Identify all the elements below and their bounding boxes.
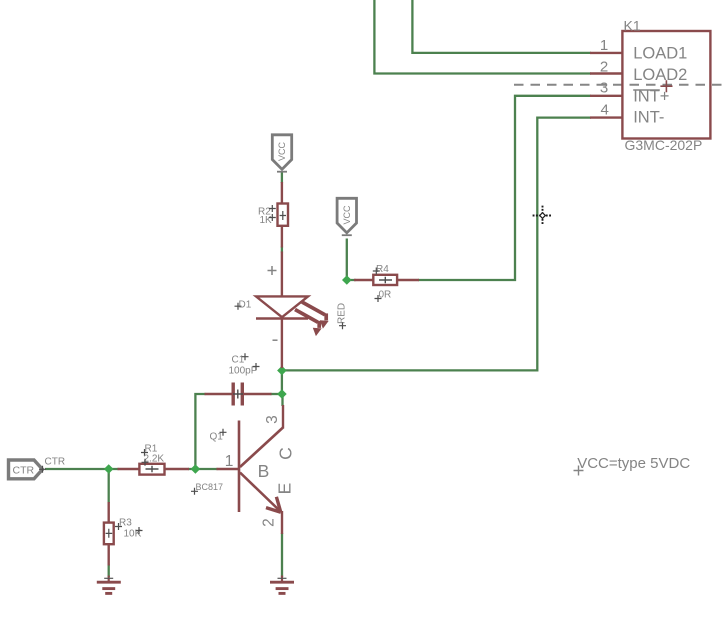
wire R3 to GND1 bbox=[108, 565, 110, 578]
wire VCC2 to R4 left bbox=[347, 239, 356, 281]
svg-text:1K: 1K bbox=[260, 215, 273, 226]
supply symbol VCC1 bbox=[272, 135, 291, 172]
svg-text:C: C bbox=[275, 447, 295, 460]
svg-text:CTR: CTR bbox=[45, 456, 66, 467]
junction node CTR/R3 bbox=[104, 464, 114, 474]
transistor Q1 value BC817 bbox=[191, 482, 223, 495]
note text VCC=type 5VDC bbox=[574, 455, 691, 476]
relay K1 refdes label bbox=[624, 18, 641, 34]
resistor R2 refdes label bbox=[258, 205, 276, 218]
relay K1 box bbox=[622, 31, 710, 139]
wire VCC1 to R2 bbox=[281, 172, 283, 183]
connector CTR symbol bbox=[9, 460, 43, 479]
resistor R1 body bbox=[139, 464, 164, 475]
resistor R3 refdes label bbox=[115, 518, 132, 531]
resistor R3 value 10K bbox=[124, 527, 143, 540]
capacitor C1 refdes label bbox=[232, 353, 249, 365]
pin name LOAD2 bbox=[633, 66, 687, 84]
pin number 2 bbox=[600, 58, 608, 75]
resistor R3 leads bbox=[107, 502, 109, 566]
diode D1 LED triangle bbox=[256, 296, 308, 317]
diode D1 refdes label bbox=[235, 300, 252, 311]
wire LED cathode to node bbox=[281, 367, 283, 395]
capacitor C1 value 100pF bbox=[229, 363, 260, 377]
connector CTR net label bbox=[39, 456, 65, 473]
svg-text:E: E bbox=[274, 483, 294, 495]
transistor Q1 pin number 3 (rotated) bbox=[264, 415, 281, 424]
capacitor C1 origin cross bbox=[233, 390, 243, 399]
transistor Q1 pin number 1 bbox=[225, 453, 234, 470]
capacitor C1 plates bbox=[233, 383, 242, 406]
transistor Q1 base bar bbox=[238, 421, 241, 513]
svg-text:3: 3 bbox=[600, 80, 608, 97]
diode D1 anode plus mark bbox=[268, 266, 277, 275]
pin name INT+ (overlined INT) bbox=[633, 87, 669, 105]
svg-text:2: 2 bbox=[600, 58, 608, 75]
resistor R1 refdes label bbox=[141, 444, 158, 457]
wire R1 to Q1 base bbox=[188, 468, 218, 470]
diode D1 LED anode lead bbox=[281, 252, 283, 297]
svg-text:BC817: BC817 bbox=[196, 482, 224, 492]
svg-text:VCC: VCC bbox=[342, 205, 352, 225]
transistor Q1 emitter with arrow bbox=[240, 473, 282, 535]
transistor Q1 refdes label bbox=[210, 429, 227, 443]
diode D1 cathode minus mark bbox=[273, 339, 278, 341]
transistor Q1 pin name C (rotated) bbox=[275, 447, 295, 460]
svg-text:D1: D1 bbox=[239, 300, 252, 311]
relay K1 origin cross bbox=[660, 80, 672, 92]
svg-text:LOAD1: LOAD1 bbox=[633, 45, 687, 63]
svg-text:100pF: 100pF bbox=[229, 366, 257, 377]
junction node VCC2/R4 bbox=[342, 275, 352, 285]
resistor R4 refdes label bbox=[373, 264, 389, 275]
resistor R1 leads bbox=[118, 468, 190, 470]
resistor R3 body bbox=[104, 523, 114, 545]
svg-text:VCC=type 5VDC: VCC=type 5VDC bbox=[577, 455, 690, 472]
transistor Q1 pin name E (rotated) bbox=[274, 483, 294, 495]
resistor R1 value 2.2K bbox=[142, 454, 165, 466]
resistor R2 leads bbox=[281, 182, 283, 248]
dashed sheet boundary line bbox=[514, 84, 727, 86]
supply symbol VCC2 bbox=[337, 198, 356, 235]
pin number 4 bbox=[600, 102, 608, 119]
svg-text:K1: K1 bbox=[624, 18, 641, 34]
resistor R4 body bbox=[373, 275, 397, 285]
junction node base/R1/C1 bbox=[191, 464, 201, 474]
relay K1 pin 3 stub bbox=[590, 95, 623, 97]
svg-text:1: 1 bbox=[600, 37, 608, 54]
diode D1 value label RED bbox=[337, 303, 348, 329]
svg-text:LOAD2: LOAD2 bbox=[633, 66, 687, 84]
transistor Q1 base lead bbox=[217, 468, 239, 470]
wire C1 left to base node bbox=[195, 394, 205, 469]
svg-text:R4: R4 bbox=[376, 264, 389, 275]
junction node C1 right bbox=[277, 389, 287, 399]
relay K1 value label G3MC-202P bbox=[625, 137, 703, 153]
wire net LOAD1 (pin1) bbox=[412, 0, 591, 53]
mouse cursor crosshair bbox=[533, 206, 553, 226]
transistor Q1 collector bbox=[240, 405, 283, 467]
svg-text:INT-: INT- bbox=[633, 108, 664, 126]
pin number 3 bbox=[600, 80, 608, 97]
capacitor C1 left lead bbox=[205, 393, 232, 395]
relay K1 pin 2 stub bbox=[590, 72, 623, 74]
resistor R2 value 1K bbox=[260, 214, 276, 226]
svg-text:4: 4 bbox=[600, 102, 608, 119]
pin number 1 bbox=[600, 37, 608, 54]
svg-text:VCC: VCC bbox=[277, 141, 287, 161]
svg-text:3: 3 bbox=[264, 415, 281, 424]
pin name INT- bbox=[633, 108, 664, 126]
svg-text:RED: RED bbox=[337, 303, 348, 324]
relay K1 pin 4 stub bbox=[590, 116, 623, 118]
wire R2 to LED anode bbox=[281, 247, 283, 253]
wire net INT+ (pin3 to R4) bbox=[418, 96, 591, 280]
svg-text:Q1: Q1 bbox=[210, 432, 224, 443]
svg-text:1: 1 bbox=[225, 453, 234, 470]
transistor Q1 pin number 2 (rotated) bbox=[260, 518, 277, 527]
svg-text:G3MC-202P: G3MC-202P bbox=[625, 137, 703, 153]
wire net INT- (pin4 to LED cathode) bbox=[282, 118, 591, 371]
wire node to Q1 collector bbox=[281, 394, 283, 406]
wire Q1 emitter to GND2 bbox=[281, 533, 283, 577]
svg-text:2: 2 bbox=[260, 518, 277, 527]
wire node to R3 bbox=[108, 469, 110, 503]
resistor R4 leads bbox=[354, 279, 419, 281]
capacitor C1 right lead bbox=[244, 393, 272, 395]
relay K1 pin 1 stub bbox=[590, 52, 623, 54]
resistor R4 value 0R bbox=[375, 290, 392, 303]
resistor R2 body bbox=[278, 204, 289, 226]
ground GND1 bbox=[97, 576, 121, 594]
wire CTR to R1 bbox=[45, 468, 119, 470]
junction node LED cathode / INT- bbox=[277, 366, 287, 376]
diode D1 LED arrow 1 bbox=[302, 302, 329, 329]
diode D1 LED cathode bar bbox=[256, 317, 308, 319]
wire net LOAD2 (pin2) bbox=[374, 0, 591, 74]
pin name LOAD1 bbox=[633, 45, 687, 63]
ground GND2 bbox=[270, 576, 294, 594]
transistor Q1 pin name B bbox=[258, 461, 270, 481]
wire C1 right to node bbox=[271, 393, 282, 395]
diode D1 LED cathode lead bbox=[281, 319, 283, 369]
svg-text:CTR: CTR bbox=[13, 464, 35, 476]
svg-text:B: B bbox=[258, 461, 270, 481]
diode D1 LED arrow 2 bbox=[295, 310, 322, 337]
